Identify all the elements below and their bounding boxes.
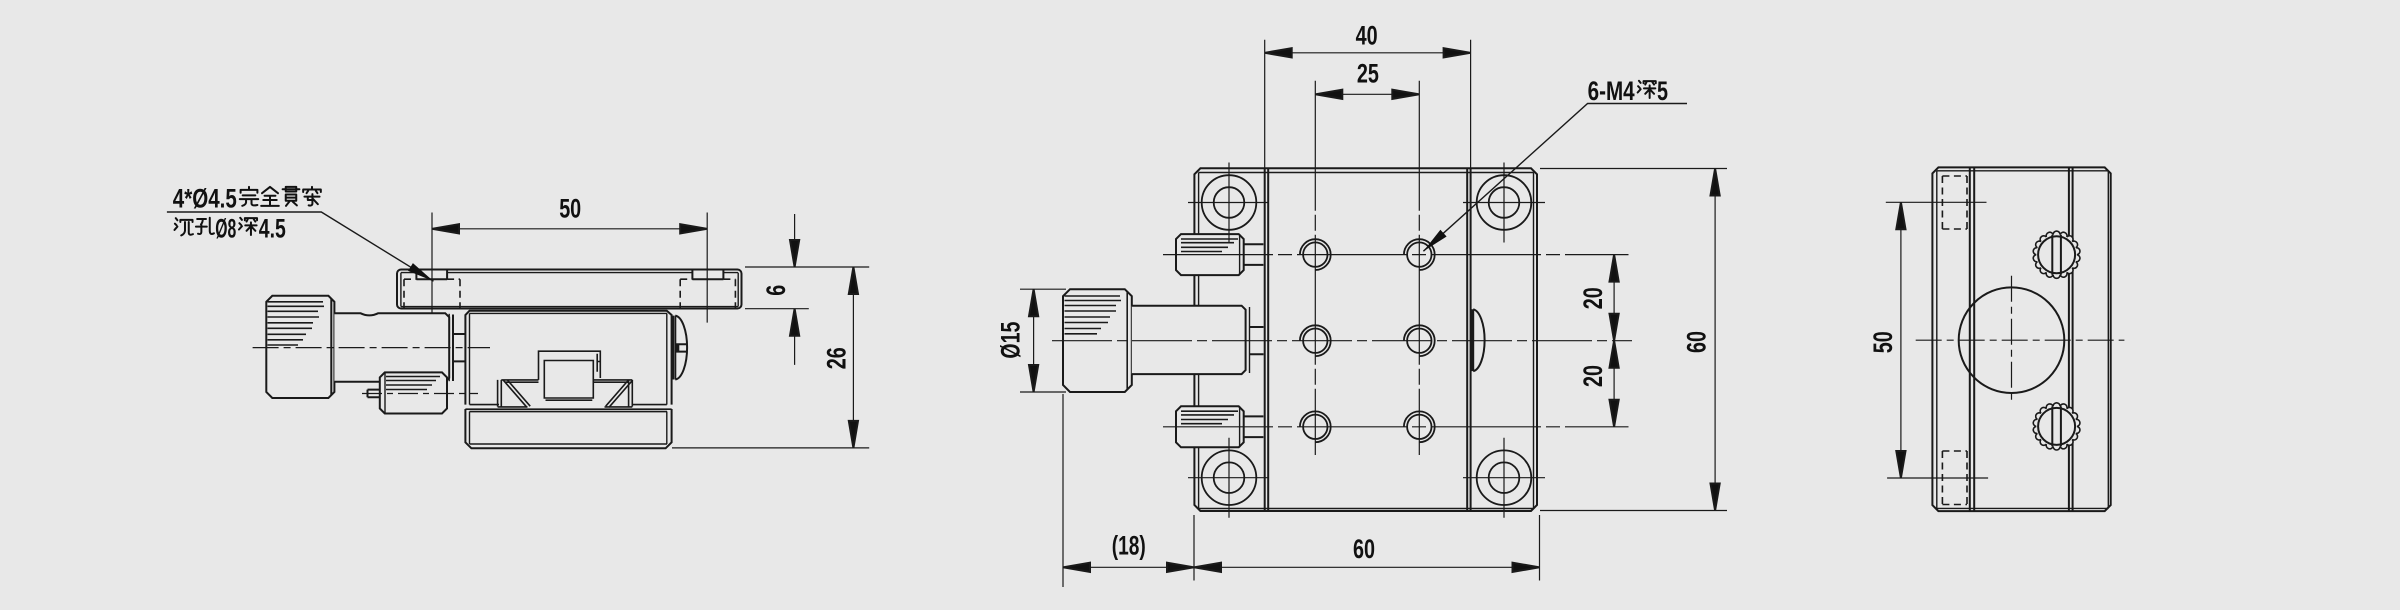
left strip edge: [1970, 167, 1974, 511]
dims bottom (18) 60: [1063, 394, 1540, 587]
moving plate edges: [1265, 168, 1471, 511]
hole centerlines: [432, 213, 707, 323]
lock knob bottom: [1176, 406, 1244, 447]
dim 26: [672, 267, 869, 448]
svg-text:60: 60: [1353, 534, 1375, 564]
dim 6: [745, 214, 869, 365]
dovetail ledges: [501, 380, 632, 382]
plate inner lines: [1199, 173, 1534, 509]
svg-text:50: 50: [1868, 331, 1898, 353]
dovetail inner rect: [544, 361, 593, 401]
large circle: [1959, 287, 2065, 393]
carriage bottom segments: [470, 405, 667, 407]
M4 holes: inner circle + 3/4 thread arc: [1300, 239, 1435, 442]
main axis centerline: [1052, 340, 1632, 342]
dim 50: [1886, 202, 1988, 478]
svg-text:5: 5: [1657, 76, 1668, 106]
lock screw tip: [368, 390, 380, 398]
knob: [266, 296, 334, 398]
svg-text:6: 6: [761, 285, 791, 296]
dim 40: [1265, 40, 1471, 169]
svg-text:Ø15: Ø15: [996, 322, 1026, 359]
dim phi15: [1020, 289, 1066, 392]
lock screw body: [380, 372, 447, 413]
base top: [465, 409, 671, 411]
carriage block: [465, 311, 671, 405]
svg-text:20: 20: [1578, 365, 1608, 387]
label leader: [167, 212, 434, 281]
shaft: [334, 313, 449, 382]
dim 20 20: [1613, 255, 1615, 427]
svg-text:6-M4: 6-M4: [1588, 76, 1635, 106]
knurl lines knob: [268, 302, 325, 345]
lock screw axis: [362, 393, 478, 395]
dovetail outer rect: [539, 351, 601, 380]
dim 25: [1315, 93, 1419, 95]
dovetail groove left wall: [498, 380, 502, 407]
svg-text:40: 40: [1356, 20, 1378, 50]
body outline: [1932, 167, 2110, 511]
clamp screw head D on moving plate right edge: [1472, 309, 1485, 371]
hole column centerlines: [1315, 81, 1419, 455]
knurled knob bottom: [2033, 403, 2080, 450]
svg-text:50: 50: [559, 193, 581, 223]
main axis centerline: [253, 347, 490, 349]
screw head D: [673, 316, 687, 380]
dovetail right wall: [629, 380, 633, 407]
svg-text:25: 25: [1357, 59, 1379, 89]
row centerlines: [1163, 255, 1629, 427]
top plate outer: [397, 270, 742, 309]
corner hole centerline overlays across knobs: [1228, 234, 1230, 447]
top plate inner lines: [401, 273, 738, 307]
flange: [453, 334, 465, 361]
lock screw knurl: [386, 377, 440, 390]
corner hole centerlines: [1188, 163, 1545, 518]
dovetail right hypotenuse: [606, 380, 633, 407]
svg-text:4*Ø4.5: 4*Ø4.5: [173, 184, 237, 214]
counterbore notch right: [692, 270, 723, 280]
svg-text:Ø8: Ø8: [215, 214, 236, 244]
dim 60 right: [1540, 169, 1727, 511]
svg-text:20: 20: [1578, 287, 1608, 309]
middle right edge: [2069, 167, 2073, 511]
main shaft: [1132, 306, 1246, 374]
svg-text:60: 60: [1682, 331, 1712, 353]
hidden counterbores dashed: [1942, 176, 1967, 505]
centerlines: [1916, 276, 2125, 402]
lock knob top: [1176, 234, 1244, 275]
label text line2: chen kong [dia]8 shen 4.5: [174, 218, 257, 236]
dim 50: [432, 228, 707, 230]
hidden hole dashes left: [404, 279, 735, 308]
counterbore notch left: [416, 270, 447, 280]
dovetail left hypotenuse: [503, 380, 530, 407]
plate outer: [1194, 168, 1537, 511]
svg-text:(18): (18): [1112, 531, 1146, 561]
svg-text:26: 26: [821, 347, 851, 369]
main knob: [1063, 289, 1132, 392]
shaft flange: [1250, 327, 1264, 354]
svg-text:4.5: 4.5: [259, 214, 286, 244]
knurled knob top: [2033, 231, 2080, 278]
corner holes: [1202, 175, 1532, 505]
base block: [465, 409, 671, 448]
